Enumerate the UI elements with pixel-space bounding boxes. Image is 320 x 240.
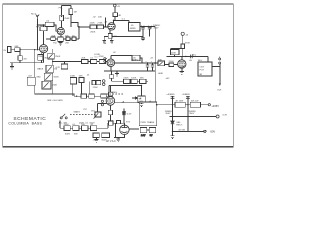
wire screen drop [78, 27, 80, 39]
pot mid wiper [43, 82, 48, 88]
capacitor PI bypass [138, 96, 146, 102]
switch AC toggle [60, 114, 67, 119]
wire T4 output row [115, 62, 156, 64]
arrow to push-pull label [132, 97, 138, 99]
resistor mains row b [73, 126, 79, 131]
wire antenna drop [37, 19, 39, 50]
svg-text:GANG: GANG [73, 111, 80, 114]
junction dot rail B [156, 104, 158, 106]
svg-text:250K: 250K [55, 56, 61, 58]
resistor V2a grid a [90, 25, 96, 29]
resistor V1b plate load [69, 9, 73, 15]
wire T2 plate riser [61, 6, 63, 28]
wire T1 cathode drop [43, 53, 45, 63]
wire psu B+ rail [157, 104, 209, 106]
ground mains filter [94, 138, 98, 143]
wire T7 grid entry [98, 103, 107, 105]
wire tone left vertical [34, 50, 36, 94]
jack PI grid [101, 100, 103, 106]
junction dot V1b plate [61, 16, 62, 17]
dashed gang line pot [70, 114, 95, 116]
resistor tone row b [90, 59, 96, 63]
resistor decoupling B2 [132, 55, 140, 61]
power transformer box [139, 102, 157, 126]
resistor V1a cathode [38, 54, 43, 60]
wire B+ long vertical [154, 26, 156, 102]
svg-text:220K: 220K [169, 61, 175, 63]
wire psu vertical A [172, 96, 174, 136]
svg-text:600V: 600V [65, 134, 71, 136]
resistor V4 feedback [170, 50, 179, 55]
svg-text:1.5K: 1.5K [112, 36, 117, 38]
wire filter cap stub C [147, 63, 149, 65]
junction dot plate rail left [174, 56, 175, 57]
svg-text:COLUMBIA BASS: COLUMBIA BASS [8, 122, 42, 126]
svg-text:20K: 20K [81, 58, 85, 60]
wire heater tap link [147, 129, 150, 131]
wire PI grid riser [110, 86, 112, 93]
resistor cathode row a [51, 37, 55, 41]
input jack second [104, 58, 107, 63]
junction dot B+ tap [113, 20, 114, 21]
svg-text:6MFD: 6MFD [130, 28, 136, 30]
svg-text:AUD: AUD [158, 72, 163, 75]
capacitor 20MFD can D plates [151, 65, 154, 67]
svg-text:RECT.: RECT. [176, 124, 183, 126]
B+ terminal V4 [181, 32, 184, 35]
speaker terminal a [219, 58, 221, 60]
wire T3 grid jog [71, 22, 78, 27]
resistor bus c [101, 94, 106, 98]
wire coupling cap riser [104, 18, 106, 27]
wire T2 cathode stub [60, 35, 62, 39]
wire PI plate out [115, 102, 142, 104]
junction dot tone bus [76, 96, 77, 97]
wire tone bottom link [35, 94, 74, 96]
resistor cathode row c [66, 37, 70, 41]
svg-text:56K: 56K [140, 77, 144, 79]
svg-text:220K: 220K [90, 22, 96, 24]
wire top feed [62, 5, 71, 7]
resistor decoupling B+ [129, 22, 140, 31]
capacitor feedback row a [124, 79, 130, 83]
wire tone row to T4 grid [53, 61, 107, 63]
junction dot rail caps B [187, 104, 188, 105]
resistor tone row c [99, 59, 105, 63]
wire T5 cathode [181, 68, 183, 71]
wire pot drop 2 [81, 83, 83, 97]
resistor V4 grid [169, 63, 174, 67]
dashed gang line PI [106, 93, 123, 95]
svg-text:117 V.A.C.: 117 V.A.C. [106, 140, 117, 143]
svg-text:OBR + BLU GRN: OBR + BLU GRN [47, 100, 63, 102]
resistor mains row c [82, 126, 88, 131]
resistor V2a grid b [97, 25, 103, 29]
wire T4 cathode stub [110, 67, 112, 71]
wire filter cap stub B2 [149, 29, 151, 36]
pot loudness wiper [49, 54, 53, 58]
wire speaker lead [212, 64, 220, 67]
ground caps common [141, 36, 145, 40]
svg-text:350V: 350V [153, 28, 159, 30]
capacitor mains b [102, 133, 110, 138]
B+ terminal top [114, 4, 117, 7]
wire transformer feed [108, 122, 124, 124]
capacitor psu filter B plates [186, 96, 190, 98]
svg-text:100K: 100K [171, 53, 177, 55]
wire T5 plate riser [181, 56, 183, 59]
svg-text:1M: 1M [74, 11, 77, 13]
junction dot bias node [172, 116, 173, 117]
resistor mains row d [90, 126, 96, 131]
ground V4 cathode [180, 71, 184, 74]
input jack J1 [8, 46, 11, 52]
wire screen top [170, 48, 182, 50]
svg-text:PRES: PRES [111, 92, 117, 94]
pot presence [158, 61, 165, 66]
svg-text:250K: 250K [52, 84, 58, 86]
wire filter cap stub C2 [147, 67, 149, 71]
wire pot drop 1 [72, 84, 74, 96]
wire rect plate stub [123, 123, 125, 125]
border bottom shadow [3, 147, 234, 149]
wire mains row [60, 127, 108, 129]
svg-text:350V: 350V [165, 113, 171, 115]
wire cathode below box [109, 115, 111, 122]
wire heater symbol drop [123, 115, 125, 123]
resistor T7 cathode [108, 110, 112, 114]
svg-text:PWR: PWR [141, 122, 147, 124]
wire T2 cathode row [46, 38, 79, 40]
wire bus to resistor [110, 71, 112, 75]
svg-text:6.3V: 6.3V [141, 135, 146, 137]
capacitor feedback row b [131, 79, 137, 83]
junction dot cap C [147, 62, 148, 63]
wire pot to grid box [164, 63, 169, 65]
arrow speaker out [219, 84, 221, 87]
wire mid vertical [41, 54, 43, 63]
resistor V2a cathode [108, 34, 112, 39]
pot presence wiper [159, 62, 162, 65]
resistor T7 grid column [109, 92, 113, 96]
resistor cathode row d [72, 37, 76, 41]
capacitor tone left [27, 77, 35, 85]
junction dot feedback [141, 85, 142, 86]
wire bottom stub row [114, 137, 125, 139]
wire box to T2 grid [54, 25, 57, 31]
wire mid ground bus [104, 70, 155, 72]
resistor mains row a [64, 126, 70, 131]
resistor B+ dropping [113, 13, 118, 17]
wire screen resistor lead [182, 48, 184, 56]
svg-text:6MFD: 6MFD [132, 60, 138, 62]
svg-text:6.3V: 6.3V [127, 114, 132, 116]
wire OT primary drop [207, 56, 209, 62]
wire plate resistor column [70, 6, 72, 27]
terminal +465V [208, 104, 210, 106]
heater transformer winding [122, 112, 126, 115]
svg-text:6.3V: 6.3V [223, 114, 228, 116]
junction dot antenna node [37, 24, 38, 25]
wire T4 plate rail [111, 55, 132, 57]
svg-text:BLU: BLU [198, 60, 203, 62]
wire vol feed to T5 grid [155, 62, 158, 64]
wire bypass cap drop [141, 86, 143, 97]
pot mid [42, 81, 51, 89]
wire transformer left leg [114, 123, 116, 137]
diode bias rectifier [171, 121, 175, 124]
wire PI plate riser [108, 86, 110, 98]
junction dot screen [78, 26, 79, 27]
junction dot jack node [19, 49, 20, 50]
junction dot rail caps A [172, 104, 173, 105]
wire switch feed [59, 120, 61, 128]
svg-text:4K 10W: 4K 10W [175, 100, 184, 102]
resistor cathode row b [58, 37, 63, 42]
capacitor 20MFD can A plates [141, 27, 144, 29]
jack mid circles [102, 80, 105, 86]
svg-text:VOL: VOL [91, 111, 96, 113]
svg-text:50K: 50K [158, 59, 162, 61]
wire tone stack vertical [52, 49, 54, 94]
wire psu vertical B [187, 96, 189, 132]
wire T5 plate rail [166, 55, 208, 57]
wire B+ tap drop to plate [114, 7, 116, 13]
wire heater top [123, 109, 125, 112]
resistor bus b [89, 94, 95, 98]
wire coupling row T1 plate to T2 grid [38, 24, 46, 26]
junction dot heater B [187, 116, 188, 117]
resistor heater tap a [140, 128, 146, 133]
svg-text:-50V: -50V [210, 130, 216, 134]
wire T1 plate riser [43, 31, 45, 45]
capacitor mains a [93, 133, 99, 138]
resistor V1a plate load [40, 27, 47, 31]
svg-text:P.P.: P.P. [84, 109, 88, 111]
tube V1b triode [57, 28, 64, 35]
tube V4 output pentode [178, 60, 186, 68]
junction dot tone left [34, 49, 35, 50]
svg-text:68K: 68K [15, 46, 19, 48]
tube V2b triode [107, 59, 115, 67]
speaker terminal b [219, 62, 221, 64]
terminal -50V [204, 130, 206, 132]
svg-text:10K 1W: 10K 1W [191, 100, 200, 102]
wire B+ top rail [114, 19, 129, 21]
svg-text:TRE: TRE [38, 56, 43, 58]
wire decoupling chain [140, 25, 155, 27]
resistor heater tap b [149, 128, 155, 133]
pot loudness [48, 53, 55, 59]
resistor feedback row c [140, 79, 146, 83]
wire filter cap stub A2 [142, 29, 144, 36]
capacitor 20MFD can C plates [146, 65, 149, 67]
diode input clamp [36, 26, 38, 29]
svg-text:+40MFD: +40MFD [166, 94, 175, 96]
wire ground bus under T3 [104, 35, 143, 37]
wire 4.7K stub [64, 62, 66, 64]
svg-text:.0005: .0005 [123, 77, 129, 79]
wire T4 coupling jog [140, 58, 142, 63]
svg-text:BASS: BASS [37, 67, 43, 70]
resistor bus drop [109, 75, 113, 78]
wire B+ tap below box [114, 17, 116, 21]
wire feedback drop [110, 78, 112, 81]
svg-text:250K: 250K [90, 31, 96, 33]
junction dot plate node [43, 24, 44, 25]
svg-text:FUSE: FUSE [108, 120, 114, 122]
capacitor psu filter A plates [171, 96, 175, 98]
svg-text:56K: 56K [79, 76, 83, 78]
svg-text:220K: 220K [40, 25, 46, 27]
junction dot cap B [151, 26, 152, 27]
svg-text:+465V: +465V [211, 104, 219, 108]
tube V2a triode [108, 23, 115, 30]
ground input bus [10, 63, 14, 69]
wire B+ jog down [128, 20, 130, 22]
terminal heater [216, 115, 219, 118]
svg-text:20K: 20K [65, 36, 69, 38]
svg-text:NO.2: NO.2 [31, 13, 37, 15]
wire T3 cathode stub [109, 30, 111, 34]
wire rectifier cathode drop [123, 135, 125, 138]
tube V5 rectifier [120, 125, 129, 134]
wire T1 plate to coupling node [43, 25, 45, 27]
wire PI plate row [109, 85, 142, 87]
resistor psu dropping 1 [175, 102, 185, 107]
pot bass wiper [45, 74, 50, 79]
wire T3 plate riser [113, 20, 115, 23]
svg-text:100K: 100K [131, 77, 137, 79]
wire cathode box to bus [109, 36, 111, 38]
resistor V1b bias [60, 15, 64, 21]
svg-text:1M: 1M [23, 58, 26, 60]
wire grid-leak drop [19, 50, 21, 63]
svg-text:100K: 100K [70, 76, 76, 78]
capacitor output coupling [191, 55, 193, 59]
wire pot drop 3 [88, 81, 90, 96]
capacitor coupling to V1b [45, 22, 54, 26]
ground bias network [170, 136, 174, 139]
wire rectifier output [129, 128, 139, 130]
resistor 4.7K tap [61, 64, 67, 69]
pot treble [46, 65, 53, 72]
svg-text:TRANS: TRANS [147, 121, 155, 124]
svg-text:15K: 15K [51, 36, 55, 38]
resistor V4 screen [181, 44, 185, 48]
wire filter cap stub D2 [152, 67, 154, 71]
resistor 68K grid stopper [15, 48, 20, 52]
pot bass [44, 73, 52, 80]
wire mains riser [107, 123, 109, 128]
fuse box 2 [116, 121, 120, 124]
svg-text:MID: MID [37, 77, 41, 79]
wire feedback row [111, 80, 148, 82]
wire heater run [170, 116, 217, 118]
svg-text:1K 5W: 1K 5W [178, 129, 185, 131]
resistor tone slope [70, 78, 76, 84]
wire T3 grid row [78, 26, 108, 28]
antenna input symbol [36, 15, 39, 19]
resistor tone row a [82, 59, 88, 63]
wire filter cap stub B [149, 25, 151, 28]
svg-text:OUT: OUT [200, 66, 205, 68]
output transformer T2 [198, 62, 212, 76]
resistor psu dropping 2 [190, 102, 200, 107]
capacitor 20MFD can B plates [148, 27, 151, 29]
junction dot vol feed [155, 62, 156, 63]
ground V2b bus [115, 71, 119, 76]
wire T4 plate riser [110, 56, 112, 59]
svg-text:350V: 350V [189, 113, 195, 115]
resistor tone slope 4 [96, 80, 100, 84]
wire feedback box top lead [174, 49, 176, 50]
ground bus under T3 [110, 36, 114, 43]
svg-text:470K: 470K [185, 43, 191, 45]
wire grid box to T5 [174, 63, 178, 65]
svg-text:BLU: BLU [192, 54, 197, 56]
junction dot cap A [143, 26, 144, 27]
wire B+ terminal lead [182, 35, 184, 44]
wire speaker bottom [219, 56, 221, 58]
resistor tone slope 2 [79, 78, 84, 83]
svg-text:25K: 25K [65, 43, 69, 45]
junction dot bias row [172, 131, 173, 132]
tube V1a triode [40, 45, 48, 53]
resistor bus a [81, 94, 87, 98]
tube V3 phase inverter [106, 97, 115, 106]
ground V1b cathode [59, 42, 63, 46]
pot volume [95, 112, 101, 117]
wire speaker output drop [219, 64, 221, 84]
svg-text:500K: 500K [54, 77, 60, 79]
fuse box [109, 121, 113, 125]
wire ground bus left [10, 62, 44, 64]
ground PI bypass [139, 103, 143, 107]
wire bias row [173, 130, 204, 132]
wire vol pot riser [97, 104, 99, 113]
junction dot grid riser [105, 26, 106, 27]
svg-text:220K: 220K [93, 87, 99, 89]
svg-text:PUT: PUT [200, 70, 205, 72]
ground V2a cathode [102, 36, 106, 43]
pot treble wiper [47, 66, 52, 71]
junction dot plate rail right [185, 56, 186, 57]
wire tone bus [74, 95, 110, 97]
wire T7 cathode drop [109, 105, 111, 110]
svg-text:400V: 400V [138, 101, 144, 103]
resistor grid leak 1M [18, 56, 22, 60]
ground rectifier center tap [116, 138, 120, 142]
svg-text:270K: 270K [97, 22, 103, 24]
wire input jack to grid of V1 [11, 49, 39, 51]
svg-text:1M: 1M [54, 68, 57, 70]
wire feedback box bottom lead [174, 55, 176, 57]
wire filter cap stub D [152, 63, 154, 65]
svg-text:250K: 250K [64, 18, 70, 20]
svg-text:+20MFD: +20MFD [182, 94, 191, 96]
border frame [3, 4, 234, 147]
junction dot T1 grid [37, 49, 38, 50]
svg-text:10K: 10K [81, 124, 85, 126]
svg-text:20K: 20K [98, 17, 102, 19]
resistor tone slope 3 [92, 80, 96, 84]
svg-text:250K: 250K [64, 124, 70, 126]
wire filter cap stub A [142, 25, 144, 28]
junction dot B2 node [154, 62, 156, 64]
pot volume wiper [94, 113, 99, 118]
svg-text:4Ω: 4Ω [199, 74, 202, 76]
